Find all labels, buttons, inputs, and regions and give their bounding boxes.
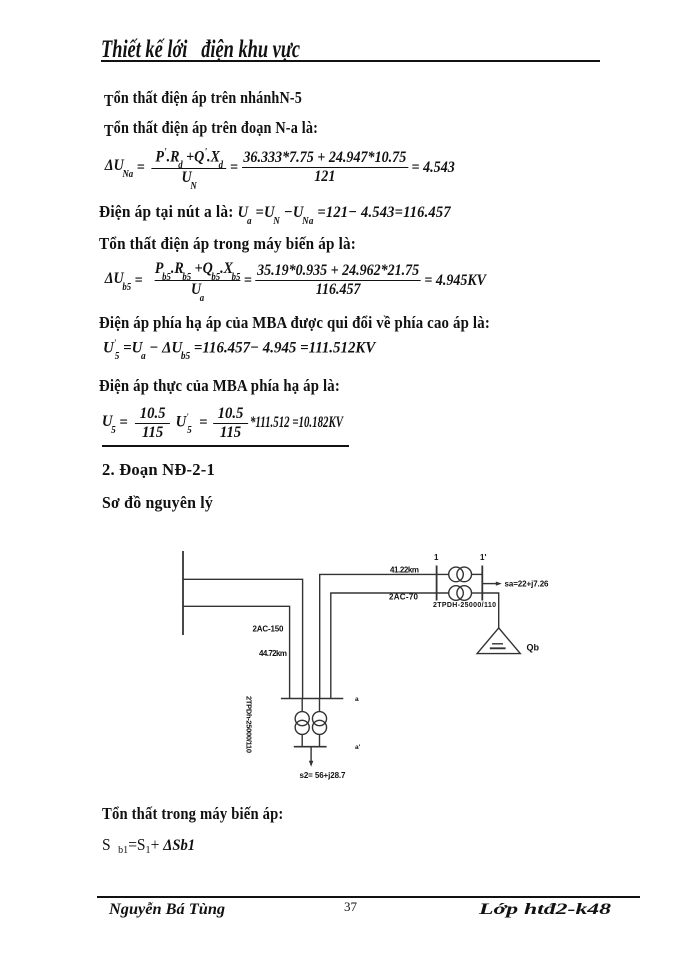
footer line bbox=[97, 896, 640, 898]
svg-text:1': 1' bbox=[480, 553, 486, 562]
svg-text:2TPDH-25000/110: 2TPDH-25000/110 bbox=[433, 602, 496, 609]
transformer T1b bbox=[449, 586, 464, 601]
svg-text:41.22km: 41.22km bbox=[390, 566, 419, 575]
svg-text:a: a bbox=[355, 696, 359, 703]
formula 4 bbox=[100, 403, 377, 443]
svg-text:44.72km: 44.72km bbox=[259, 649, 287, 658]
svg-text:2AC-70: 2AC-70 bbox=[389, 593, 419, 602]
wire line N-a circuit 2 bbox=[183, 606, 290, 698]
load arrow s2 bbox=[310, 747, 312, 762]
busbar node a bbox=[281, 698, 343, 700]
svg-text:Qb: Qb bbox=[527, 643, 540, 653]
footer right bbox=[479, 901, 611, 919]
wire line a-1 circuit 1 (41.22km) bbox=[320, 574, 449, 698]
transformer T1a bbox=[449, 567, 464, 582]
line: Dien ap thuc bbox=[99, 376, 340, 396]
footer left name bbox=[109, 901, 225, 919]
wire line a-1 circuit 2 (2AC-70) bbox=[331, 593, 449, 699]
load arrow sa bbox=[482, 583, 497, 585]
transformer T2a bbox=[295, 712, 309, 726]
svg-text:1: 1 bbox=[434, 553, 439, 562]
header script text bbox=[101, 36, 300, 64]
wire T1a to bus 1' bbox=[472, 573, 483, 575]
Qb inner lines bbox=[492, 643, 503, 645]
heading 2. Doan ND-2-1 bbox=[102, 460, 215, 480]
header underline bbox=[101, 60, 600, 62]
wire line N-a circuit 1 bbox=[183, 579, 303, 698]
transformer T2b leg bbox=[319, 699, 321, 712]
paragraph line 2 bbox=[104, 118, 318, 138]
line: Dien ap phia ha ap bbox=[99, 313, 490, 333]
busbar node 1 bbox=[436, 566, 438, 601]
svg-text:2TPDh-25000/110: 2TPDh-25000/110 bbox=[245, 696, 254, 753]
transformer T2b bbox=[312, 712, 326, 726]
capacitor bank Qb triangle bbox=[477, 628, 520, 654]
formula 1 bbox=[103, 146, 457, 189]
node N busbar bbox=[182, 551, 184, 635]
footer page number bbox=[344, 899, 357, 915]
line: Ton that trong may bien ap bbox=[102, 804, 283, 824]
svg-text:s2= 56+j28.7: s2= 56+j28.7 bbox=[300, 771, 347, 780]
formula 3 bbox=[103, 338, 375, 360]
wire T1b to bus 1' bbox=[472, 592, 483, 594]
circuit diagram bbox=[150, 540, 620, 790]
svg-text:sa=22+j7.26: sa=22+j7.26 bbox=[505, 580, 550, 589]
svg-text:2AC-150: 2AC-150 bbox=[253, 625, 285, 634]
busbar node a' bbox=[294, 746, 327, 748]
transformer T2a leg bbox=[301, 699, 303, 712]
svg-text:a': a' bbox=[355, 744, 361, 751]
busbar node 1' bbox=[481, 566, 483, 601]
line: Ton that dien ap trong MBA bbox=[99, 234, 356, 254]
line: S b1 = S1 + dSb1 bbox=[102, 835, 195, 855]
line: Dien ap tai nut a bbox=[99, 202, 451, 224]
formula 2 bbox=[103, 259, 488, 302]
paragraph line 1 bbox=[104, 88, 302, 108]
heading So do nguyen ly bbox=[102, 493, 213, 513]
underline after formula 4 bbox=[102, 445, 349, 447]
wire to capacitor bank bbox=[482, 593, 498, 628]
